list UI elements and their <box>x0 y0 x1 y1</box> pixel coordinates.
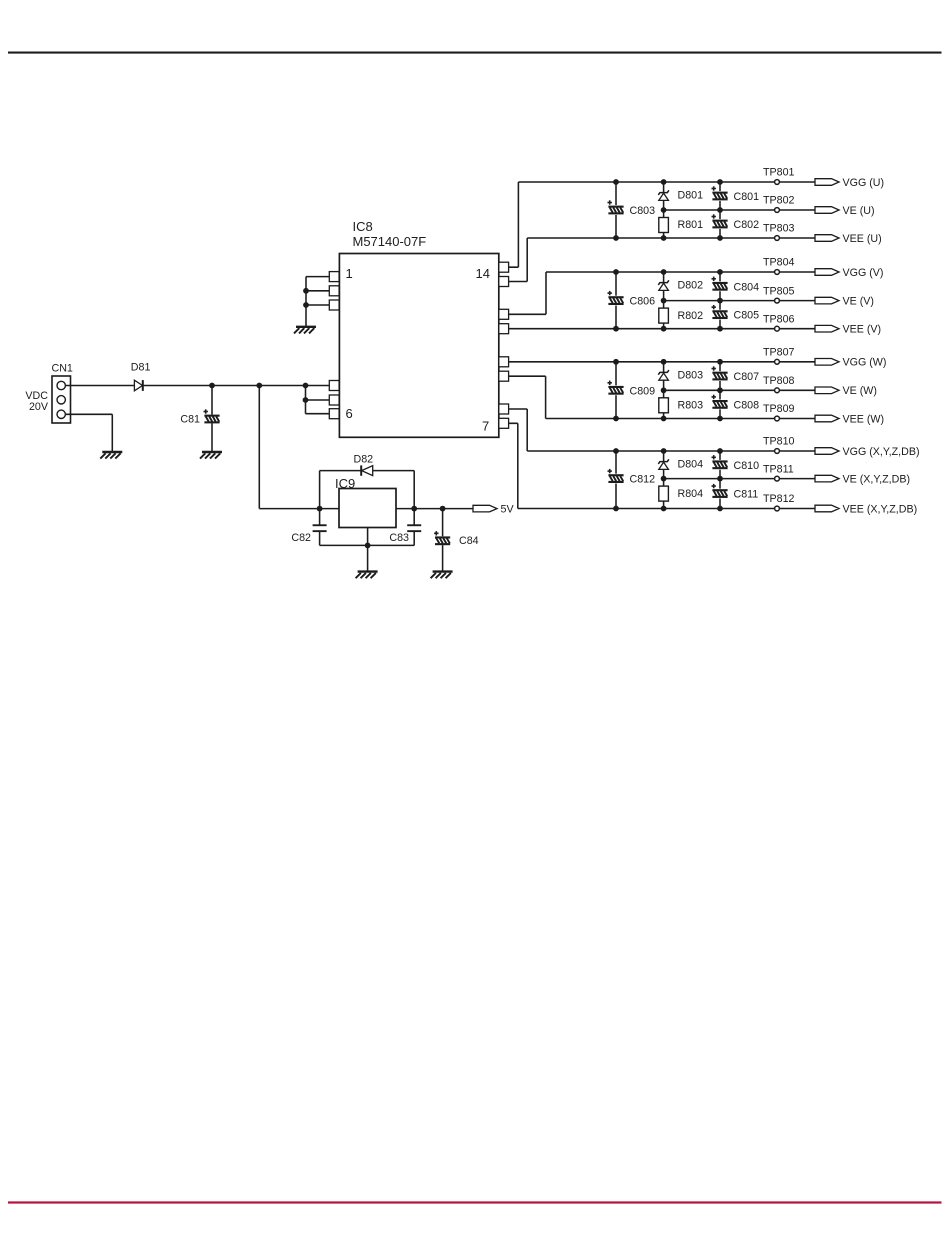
wire C801 top lead <box>719 182 721 191</box>
test point TP812 <box>775 506 780 511</box>
wire pin14b riser <box>526 238 528 282</box>
capacitor C803 <box>608 200 624 214</box>
wire D82 loop top horizontal <box>320 470 415 472</box>
svg-text:TP804: TP804 <box>763 257 795 269</box>
node bus / pin5 junction <box>303 397 309 403</box>
node C810 top <box>717 448 723 454</box>
wire R804 bottom lead <box>663 501 665 508</box>
wire C812 top lead <box>615 451 617 474</box>
wire pin14b stub <box>499 281 527 283</box>
wire CN1 pin1 to D81 anode <box>65 385 134 387</box>
zener diode D801 <box>658 190 669 200</box>
node D804/R804 mid <box>661 476 667 482</box>
zener diode D804 <box>658 459 669 469</box>
output flag VEE (V) <box>815 325 839 332</box>
svg-text:C804: C804 <box>734 281 760 293</box>
IC8 right pin box 7 <box>499 404 509 414</box>
capacitor C808 <box>712 395 728 409</box>
resistor R802 <box>659 308 669 323</box>
wire left pins ground vertical <box>305 277 307 327</box>
wire C82 bottom lead <box>319 532 321 546</box>
CN1 pin 3 circle <box>57 410 65 418</box>
node IC9 output / C83 junction <box>411 506 417 512</box>
node D801 top <box>661 179 667 185</box>
svg-text:D81: D81 <box>131 361 151 373</box>
diode D82 (pointing left) <box>361 465 373 475</box>
svg-text:VGG (V): VGG (V) <box>843 267 884 279</box>
node C805 bottom <box>717 326 723 332</box>
wire pin13 stub <box>499 313 546 315</box>
output flag VGG (V) <box>815 269 839 276</box>
node D801/R801 mid <box>661 207 667 213</box>
svg-text:TP810: TP810 <box>763 436 795 448</box>
wire C83 top lead <box>413 509 415 525</box>
svg-text:TP811: TP811 <box>763 463 794 475</box>
wire C801 bottom lead <box>719 201 721 210</box>
svg-text:TP802: TP802 <box>763 195 795 207</box>
svg-text:C807: C807 <box>734 371 760 383</box>
test point TP811 <box>775 476 780 481</box>
node C804 top <box>717 269 723 275</box>
output flag VEE (W) <box>815 415 839 422</box>
wire C809 top lead <box>615 362 617 386</box>
node C803 bottom <box>613 235 619 241</box>
output flag VE (U) <box>815 207 839 214</box>
svg-text:VEE (V): VEE (V) <box>843 324 882 336</box>
svg-text:R803: R803 <box>678 400 704 412</box>
wire pin7 dropper <box>517 423 519 508</box>
node pin2 junction <box>303 288 309 294</box>
diode D81 <box>134 380 142 391</box>
svg-text:C810: C810 <box>734 460 760 472</box>
output flag VEE (X,Y,Z,DB) <box>815 505 839 512</box>
rail VGG(W) <box>499 361 815 363</box>
IC8 right pin box 3 <box>499 309 509 319</box>
capacitor C84 <box>434 531 450 545</box>
svg-text:14: 14 <box>476 266 490 281</box>
wire pin10 dropper <box>545 376 547 418</box>
svg-text:VGG (U): VGG (U) <box>843 177 885 189</box>
zener diode D802 <box>658 280 669 290</box>
svg-text:M57140-07F: M57140-07F <box>353 234 427 249</box>
connector CN1 body <box>52 376 71 423</box>
capacitor C83 <box>407 524 421 532</box>
wire bus down to IC9 input (vertical) <box>258 386 260 509</box>
svg-text:C84: C84 <box>459 535 479 547</box>
IC8 right pin box 5 <box>499 357 509 367</box>
rail VE(V) <box>664 300 815 302</box>
wire C807 top lead <box>719 362 721 371</box>
svg-text:D803: D803 <box>678 369 704 381</box>
wire IC8 pin5 stub <box>306 399 330 401</box>
rail VEE(X,Y,Z,DB) <box>518 508 815 510</box>
rail VGG(U) <box>518 181 815 183</box>
output flag VGG (W) <box>815 359 839 366</box>
wire pin7 stub <box>499 422 518 424</box>
wire C811 bottom lead <box>719 498 721 508</box>
node C804/C805 mid <box>717 298 723 304</box>
svg-text:VE (U): VE (U) <box>843 205 875 217</box>
test point TP801 <box>775 180 780 185</box>
IC8 pin 3 box <box>329 300 339 310</box>
svg-text:D802: D802 <box>678 280 704 292</box>
wire C812 bottom lead <box>615 484 617 509</box>
svg-text:R801: R801 <box>678 219 704 231</box>
wire IC9 gnd pin <box>367 528 369 546</box>
rail VGG(X,Y,Z,DB) <box>527 450 815 452</box>
page bottom rule (red) <box>8 1201 942 1203</box>
capacitor C807 <box>712 366 728 380</box>
zener diode D803 <box>658 370 669 380</box>
node C802 bottom <box>717 235 723 241</box>
wire C81 top lead <box>211 386 213 415</box>
wire IC8 pin6 stub <box>306 413 330 415</box>
svg-text:D801: D801 <box>678 190 704 202</box>
wire C83 bottom lead <box>413 532 415 546</box>
svg-text:C811: C811 <box>734 489 759 501</box>
svg-text:C809: C809 <box>630 385 656 397</box>
wire pin8 stub <box>499 408 527 410</box>
rail VE(W) <box>664 389 815 391</box>
node D802/R802 mid <box>661 298 667 304</box>
rail VEE(V) <box>499 328 815 330</box>
wire IC9 ground rail <box>320 544 415 546</box>
output flag VGG (X,Y,Z,DB) <box>815 448 839 455</box>
svg-text:C806: C806 <box>630 296 656 308</box>
capacitor C81 <box>204 409 220 423</box>
wire C84 top lead <box>442 509 444 537</box>
CN1 pin 1 circle <box>57 381 65 389</box>
IC8 pin 4 box <box>329 381 339 391</box>
capacitor C812 <box>608 469 624 483</box>
wire R802 bottom lead <box>663 323 665 329</box>
wire D803 cathode lead <box>663 362 665 373</box>
node IC9 input / D82 / C82 junction <box>317 506 323 512</box>
wire D802 cathode lead <box>663 272 665 283</box>
IC8 right pin box 6 <box>499 371 509 381</box>
node 5V / C84 junction <box>440 506 446 512</box>
wire D801 anode to R801 <box>663 200 665 217</box>
svg-text:TP812: TP812 <box>763 493 795 505</box>
wire C84 bottom lead <box>442 545 444 572</box>
wire C802 bottom lead <box>719 229 721 238</box>
output flag VE (V) <box>815 297 839 304</box>
wire C802 top lead <box>719 210 721 219</box>
node C809 top <box>613 359 619 365</box>
wire C806 bottom lead <box>615 306 617 329</box>
test point TP803 <box>775 236 780 241</box>
node C810/C811 mid <box>717 476 723 482</box>
svg-text:C81: C81 <box>180 414 200 426</box>
wire R801 bottom lead <box>663 233 665 239</box>
capacitor C804 <box>712 277 728 291</box>
svg-text:IC8: IC8 <box>353 219 373 234</box>
wire D801 cathode lead <box>663 182 665 193</box>
wire C804 top lead <box>719 272 721 281</box>
IC8 right pin box 2 <box>499 277 509 287</box>
node R802 bottom <box>661 326 667 332</box>
capacitor C801 <box>712 186 728 200</box>
wire C804 bottom lead <box>719 291 721 300</box>
svg-text:TP809: TP809 <box>763 403 795 415</box>
wire C808 top lead <box>719 390 721 399</box>
svg-text:D82: D82 <box>354 453 374 465</box>
node C807 top <box>717 359 723 365</box>
wire pin14a stub <box>499 266 519 268</box>
wire IC8 pin1 stub <box>306 276 329 278</box>
wire left pins supply vertical <box>305 386 307 414</box>
test point TP804 <box>775 270 780 275</box>
svg-text:TP801: TP801 <box>763 167 795 179</box>
output flag VE (W) <box>815 387 839 394</box>
wire C806 top lead <box>615 272 617 296</box>
node main bus / C81 junction <box>209 383 215 389</box>
IC8 right pin box 8 <box>499 418 509 428</box>
wire pin10 stub <box>499 375 546 377</box>
svg-text:7: 7 <box>482 419 489 434</box>
svg-text:C808: C808 <box>734 399 760 411</box>
wire C805 bottom lead <box>719 320 721 329</box>
wire ground drop below IC9 <box>367 545 369 571</box>
node R803 bottom <box>661 416 667 422</box>
node C803 top <box>613 179 619 185</box>
svg-text:C801: C801 <box>734 191 760 203</box>
resistor R803 <box>659 398 669 413</box>
wire IC9 output <box>396 508 473 510</box>
svg-text:VEE (W): VEE (W) <box>843 413 885 425</box>
test point TP806 <box>775 326 780 331</box>
wire pin14a riser <box>517 182 519 267</box>
wire C807 bottom lead <box>719 381 721 390</box>
svg-text:C83: C83 <box>389 532 409 544</box>
svg-text:6: 6 <box>346 406 353 421</box>
svg-text:C82: C82 <box>291 532 311 544</box>
svg-text:TP808: TP808 <box>763 375 795 387</box>
svg-text:VEE (U): VEE (U) <box>843 233 882 245</box>
output flag VEE (U) <box>815 235 839 242</box>
rail VE(X,Y,Z,DB) <box>664 478 815 480</box>
regulator IC9 <box>339 489 396 528</box>
svg-text:R804: R804 <box>678 488 704 500</box>
svg-text:VEE (X,Y,Z,DB): VEE (X,Y,Z,DB) <box>843 503 918 515</box>
node D803/R803 mid <box>661 387 667 393</box>
rail VEE(W) <box>546 418 815 420</box>
wire D804 cathode lead <box>663 451 665 462</box>
test point TP809 <box>775 416 780 421</box>
test point TP802 <box>775 208 780 213</box>
rail VGG(V) <box>546 271 815 273</box>
wire to IC9 input (horizontal) <box>259 508 339 510</box>
resistor R801 <box>659 218 669 233</box>
svg-text:1: 1 <box>346 266 353 281</box>
node C801/C802 mid <box>717 207 723 213</box>
node D803 top <box>661 359 667 365</box>
capacitor C806 <box>608 291 624 305</box>
wire C81 bottom lead <box>211 423 213 452</box>
ground below C81 <box>200 452 222 459</box>
svg-text:20V: 20V <box>29 401 49 413</box>
node C812 top <box>613 448 619 454</box>
ground at CN1 pin 3 <box>100 452 122 459</box>
node C812 bottom <box>613 506 619 512</box>
wire D803 anode to R803 <box>663 380 665 398</box>
node C811 bottom <box>717 506 723 512</box>
capacitor C809 <box>608 381 624 395</box>
hybrid IC8 body <box>339 254 498 438</box>
wire D804 anode to R804 <box>663 469 665 486</box>
wire C805 top lead <box>719 301 721 310</box>
node C808 bottom <box>717 416 723 422</box>
capacitor C805 <box>712 305 728 319</box>
node pin3 junction <box>303 302 309 308</box>
node bus / pin4 junction <box>303 383 309 389</box>
svg-text:VE (X,Y,Z,DB): VE (X,Y,Z,DB) <box>843 474 911 486</box>
node C806 top <box>613 269 619 275</box>
node D804 top <box>661 448 667 454</box>
output flag VE (X,Y,Z,DB) <box>815 475 839 482</box>
svg-text:R802: R802 <box>678 310 704 322</box>
rail VEE(U) <box>527 237 815 239</box>
wire C810 top lead <box>719 451 721 460</box>
wire D81 cathode to main 20V bus <box>143 385 329 387</box>
wire CN1 pin3 to ground (vertical) <box>111 414 113 452</box>
svg-text:IC9: IC9 <box>335 476 355 491</box>
test point TP810 <box>775 449 780 454</box>
IC8 right pin box 1 <box>499 262 509 272</box>
resistor R804 <box>659 486 669 501</box>
wire C803 bottom lead <box>615 215 617 238</box>
svg-text:VGG (X,Y,Z,DB): VGG (X,Y,Z,DB) <box>843 446 920 458</box>
capacitor C82 <box>313 524 327 532</box>
wire C82 top lead <box>319 509 321 525</box>
capacitor C811 <box>712 484 728 498</box>
wire IC8 pin2 stub <box>306 290 329 292</box>
wire C809 bottom lead <box>615 395 617 418</box>
node main bus / IC9 branch junction <box>256 383 262 389</box>
test point TP807 <box>775 359 780 364</box>
wire R803 bottom lead <box>663 413 665 419</box>
svg-text:D804: D804 <box>678 459 704 471</box>
node C801 top <box>717 179 723 185</box>
node R801 bottom <box>661 235 667 241</box>
svg-text:C805: C805 <box>734 310 760 322</box>
test point TP808 <box>775 388 780 393</box>
wire D802 anode to R802 <box>663 290 665 308</box>
node C806 bottom <box>613 326 619 332</box>
IC8 pin 5 box <box>329 395 339 405</box>
IC8 pin 1 box <box>329 272 339 282</box>
svg-text:C802: C802 <box>734 219 760 231</box>
IC8 right pin box 4 <box>499 324 509 334</box>
svg-text:C812: C812 <box>630 474 656 486</box>
svg-text:VGG (W): VGG (W) <box>843 357 887 369</box>
node C807/C808 mid <box>717 387 723 393</box>
wire CN1 pin3 to ground (horizontal) <box>65 413 112 415</box>
wire C808 bottom lead <box>719 409 721 418</box>
svg-text:TP803: TP803 <box>763 223 795 235</box>
node C809 bottom <box>613 416 619 422</box>
svg-text:C803: C803 <box>630 205 656 217</box>
wire C811 top lead <box>719 479 721 489</box>
output flag 5V net <box>473 505 497 512</box>
IC8 pin 2 box <box>329 286 339 296</box>
wire D82 loop right vertical <box>413 471 415 509</box>
wire IC8 pin3 stub <box>306 304 329 306</box>
ground below C84 <box>431 572 453 579</box>
svg-text:VE (V): VE (V) <box>843 296 874 308</box>
wire pin13 riser <box>545 272 547 314</box>
svg-text:TP807: TP807 <box>763 347 795 359</box>
svg-text:VE (W): VE (W) <box>843 385 877 397</box>
capacitor C810 <box>712 455 728 469</box>
output flag VGG (U) <box>815 179 839 186</box>
wire C803 top lead <box>615 182 617 205</box>
wire pin8 dropper <box>526 409 528 451</box>
wire C810 bottom lead <box>719 470 721 479</box>
svg-text:5V: 5V <box>501 504 515 516</box>
node D802 top <box>661 269 667 275</box>
test point TP805 <box>775 298 780 303</box>
svg-text:TP805: TP805 <box>763 285 795 297</box>
wire D82 loop left vertical <box>319 471 321 509</box>
ground below IC9 <box>356 572 378 579</box>
capacitor C802 <box>712 214 728 228</box>
ground at IC8 pins 1-3 <box>294 327 316 334</box>
rail VE(U) <box>664 209 815 211</box>
CN1 pin 2 circle <box>57 396 65 404</box>
node R804 bottom <box>661 506 667 512</box>
IC8 pin 6 box <box>329 409 339 419</box>
page top rule <box>8 52 942 54</box>
svg-text:TP806: TP806 <box>763 313 795 325</box>
node IC9 ground junction <box>365 543 371 549</box>
svg-text:CN1: CN1 <box>52 362 73 374</box>
